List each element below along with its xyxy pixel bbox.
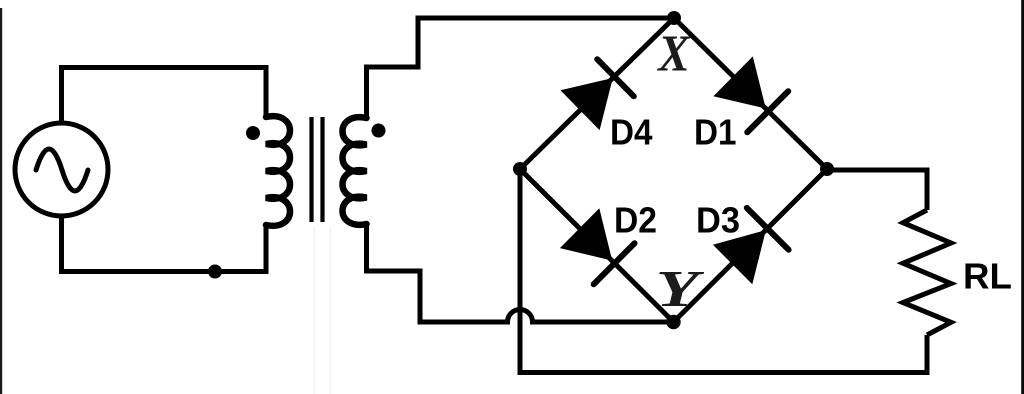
transformer T1 primary winding	[266, 116, 290, 226]
transformer T1 secondary winding	[343, 117, 367, 225]
transformer T1 primary phase dot	[246, 126, 260, 140]
transformer T1 secondary phase dot	[372, 124, 386, 138]
faint scan seam left	[314, 226, 316, 394]
svg-text:D2: D2	[614, 200, 657, 241]
junction dot on primary bottom wire	[208, 265, 222, 279]
transformer T1 core	[312, 117, 323, 222]
diode D3 triangle+bar	[713, 208, 789, 284]
svg-text:X: X	[656, 26, 691, 83]
left image border	[0, 8, 2, 394]
node X junction dot	[667, 11, 681, 25]
svg-text:D1: D1	[694, 112, 737, 153]
svg-text:D4: D4	[610, 112, 653, 153]
wire: source top to transformer primary top	[62, 68, 267, 125]
wire: resistor RL bottom to bridge left node (return path)	[520, 169, 927, 373]
diode D2 triangle+bar	[560, 208, 635, 284]
svg-text:RL: RL	[963, 256, 1012, 297]
node Y junction dot	[666, 315, 680, 329]
wire: bridge edge X to right node (through D1)	[674, 18, 827, 169]
wire: source bottom to transformer primary bottom	[62, 215, 267, 272]
diode D4 triangle+bar	[560, 59, 633, 130]
faint scan seam right	[330, 226, 332, 394]
diode D1 triangle+bar	[713, 56, 788, 132]
bridge left node junction dot	[513, 162, 527, 176]
AC source V1	[15, 123, 108, 216]
svg-text:D3: D3	[696, 200, 740, 241]
resistor RL zigzag	[903, 210, 951, 335]
bridge right node junction dot	[820, 162, 834, 176]
wire: bridge edge left node to X (through D4)	[520, 18, 674, 169]
wire: bridge edge Y to right node (through D3)	[674, 169, 828, 322]
wire: secondary bottom to bridge node Y (with hop over wire)	[367, 224, 674, 322]
wire: bridge right node to resistor RL top	[827, 170, 927, 210]
wire: secondary top to bridge node X	[367, 18, 675, 118]
svg-text:Y: Y	[656, 261, 705, 318]
wire: bridge edge left node to Y (through D2)	[520, 169, 674, 322]
right image border	[1021, 0, 1024, 394]
